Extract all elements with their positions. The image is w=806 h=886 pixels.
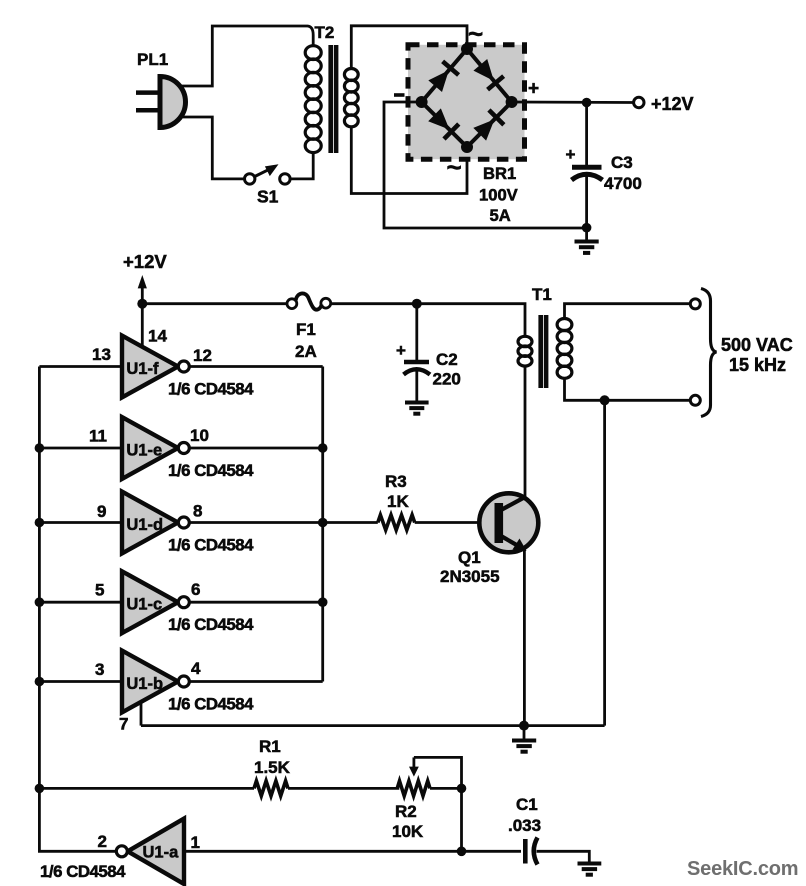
node BR1 bottom (461, 141, 473, 153)
svg-text:.033: .033 (508, 816, 541, 835)
label +12V supply arrow (123, 251, 167, 304)
svg-text:R3: R3 (385, 472, 407, 491)
svg-text:U1-d: U1-d (126, 516, 163, 534)
node bus left b (35, 677, 45, 687)
svg-text:F1: F1 (296, 320, 316, 339)
wire U1-d input (39, 521, 122, 524)
svg-text:5A: 5A (490, 206, 511, 225)
svg-text:~: ~ (447, 152, 462, 182)
U1-e pin labels (89, 426, 209, 446)
svg-text:3: 3 (95, 660, 104, 679)
svg-text:1/6 CD4584: 1/6 CD4584 (168, 615, 254, 634)
U1-d pin labels (97, 502, 202, 522)
svg-text:4700: 4700 (604, 174, 642, 193)
brace output (701, 289, 717, 417)
node bus left R1 row (35, 784, 45, 794)
node C2 junction (412, 299, 422, 309)
svg-text:S1: S1 (257, 187, 279, 207)
svg-text:1.5K: 1.5K (254, 758, 291, 777)
svg-text:1/6 CD4584: 1/6 CD4584 (40, 862, 126, 881)
svg-text:+: + (396, 341, 406, 360)
U1-a pin labels (98, 832, 200, 852)
transistor Q1 (440, 493, 538, 586)
svg-text:Q1: Q1 (458, 548, 481, 567)
svg-text:2A: 2A (295, 342, 317, 361)
node BR1 left (416, 96, 428, 108)
capacitor C2 (396, 304, 461, 403)
BR1 diamond wires (422, 49, 512, 147)
resistor R3 (378, 472, 415, 530)
inverter U1-c (122, 571, 189, 633)
wire input bus left vertical (39, 367, 115, 852)
svg-text:15 kHz: 15 kHz (729, 355, 786, 375)
svg-text:13: 13 (92, 345, 111, 364)
node bus right c (318, 597, 328, 607)
wire U1-b output (189, 680, 322, 683)
svg-text:U1-b: U1-b (126, 675, 163, 693)
wire plug bottom to S1 (183, 117, 245, 179)
svg-text:100V: 100V (479, 186, 518, 205)
U1-c pin labels (95, 580, 200, 600)
svg-text:1K: 1K (387, 492, 409, 511)
wire C1 to ground (537, 851, 590, 863)
svg-text:7: 7 (119, 715, 128, 734)
svg-text:4: 4 (191, 659, 201, 678)
svg-text:U1-f: U1-f (126, 360, 159, 378)
wire T2 secondary top to BR1 ~ top node (351, 26, 467, 69)
node BR1 top (461, 43, 473, 55)
wire BR1 minus to ground rail of C3 (384, 102, 587, 228)
wire U1-f output (189, 365, 322, 368)
svg-text:1/6 CD4584: 1/6 CD4584 (168, 380, 254, 399)
svg-text:500 VAC: 500 VAC (721, 335, 793, 355)
potentiometer R2 (392, 757, 462, 841)
capacitor C3 (566, 103, 642, 228)
inverter U1-a (116, 819, 184, 884)
svg-text:14: 14 (148, 327, 167, 346)
diode BR1 bottom-right (472, 110, 504, 142)
wire U1-e output (189, 447, 322, 450)
inverter U1-f (122, 336, 189, 398)
node bus left c (35, 597, 45, 607)
svg-text:R1: R1 (259, 737, 281, 756)
node bus left d (35, 518, 45, 528)
node bus right d (318, 518, 328, 528)
transformer T2 (305, 23, 358, 153)
svg-text:+12V: +12V (651, 94, 694, 114)
fuse F1 (287, 293, 331, 361)
node C3 top junction (582, 98, 592, 108)
diode BR1 top-left (427, 61, 458, 93)
node C1 row junction (457, 847, 467, 857)
PL1 prong upper (136, 90, 158, 95)
U1-f pin labels (92, 327, 212, 366)
wire T1 secondary top to terminal (565, 304, 691, 319)
svg-text:C1: C1 (516, 795, 538, 814)
wire pin7 to ground rail (140, 702, 143, 726)
svg-text:SeekIC.com: SeekIC.com (687, 858, 798, 880)
svg-text:C3: C3 (611, 153, 633, 172)
svg-text:1: 1 (191, 833, 200, 852)
U1-b pin labels (95, 659, 201, 734)
inverter U1-e (122, 417, 189, 479)
svg-text:BR1: BR1 (483, 164, 516, 183)
svg-text:U1-c: U1-c (126, 596, 162, 614)
PL1 prong lower (136, 108, 158, 113)
svg-text:T1: T1 (532, 285, 552, 304)
wire Q1 emitter to ground rail (523, 549, 526, 726)
wire BR1 plus to +12V terminal (512, 101, 634, 104)
svg-text:11: 11 (89, 427, 107, 446)
wire U1-c input (39, 601, 122, 604)
terminal +12V output (634, 97, 644, 107)
svg-text:U1-e: U1-e (126, 442, 162, 460)
diode BR1 top-right (472, 58, 503, 90)
BR1 value label (479, 164, 518, 225)
node bus left e (35, 443, 45, 453)
switch S1 (245, 164, 291, 206)
inverter U1-b (122, 651, 189, 713)
wire R1 to R2 (288, 787, 399, 790)
wire plug top to T2 primary top (182, 26, 313, 86)
ground below Q1 emitter rail (512, 726, 536, 752)
bridge rectifier BR1 outline box (408, 45, 525, 159)
node C3 bottom junction (582, 223, 592, 233)
ground below C2 (405, 403, 429, 414)
svg-text:2N3055: 2N3055 (440, 567, 500, 586)
svg-text:C2: C2 (436, 350, 458, 369)
svg-text:~: ~ (468, 19, 483, 49)
svg-text:+12V: +12V (123, 251, 167, 272)
svg-text:10K: 10K (392, 822, 424, 841)
wire pin14 power to U1-f (141, 304, 144, 348)
svg-text:9: 9 (97, 502, 106, 521)
svg-text:8: 8 (193, 502, 202, 521)
node R2 wiper junction (457, 784, 467, 794)
wire U1-d output (189, 521, 377, 524)
node T1 center-tap junction (600, 395, 610, 405)
terminal T1 output bottom (690, 395, 700, 405)
ground right of C1 (578, 864, 602, 875)
connector PL1 (AC plug) (137, 50, 186, 128)
svg-text:PL1: PL1 (137, 50, 168, 69)
wire R1 row from bus (39, 787, 254, 790)
svg-text:+: + (528, 79, 539, 100)
svg-text:1/6 CD4584: 1/6 CD4584 (168, 695, 254, 714)
wire U1-b input (39, 680, 122, 683)
terminal T1 output top (690, 299, 700, 309)
svg-text:U1-a: U1-a (143, 844, 180, 862)
wire output bus right vertical (321, 367, 324, 682)
resistor R1 (254, 737, 291, 796)
wire U1-f input (39, 365, 122, 368)
svg-text:6: 6 (191, 580, 200, 599)
wire U1-a input to C1 (184, 850, 521, 853)
BR1 minus label (394, 93, 405, 97)
node emitter ground junction (519, 721, 529, 731)
wire S1 to T2 primary bottom (291, 152, 314, 179)
svg-text:220: 220 (433, 370, 461, 389)
svg-text:5: 5 (95, 581, 104, 600)
svg-text:1/6 CD4584: 1/6 CD4584 (168, 461, 254, 480)
wire U1-c output (189, 601, 322, 604)
svg-text:+: + (566, 145, 576, 164)
transformer T1 (518, 285, 572, 388)
svg-text:10: 10 (190, 426, 209, 445)
svg-text:12: 12 (193, 346, 212, 365)
svg-text:T2: T2 (315, 23, 335, 42)
wire R2 right to junction (430, 787, 462, 790)
svg-text:1/6 CD4584: 1/6 CD4584 (168, 536, 254, 555)
wire T1 bottom junction down to ground rail (603, 400, 606, 725)
wire R3 to Q1 base (415, 521, 495, 524)
node +12V rail junction (137, 299, 147, 309)
inverter U1-d (122, 492, 189, 554)
capacitor C1 (508, 795, 541, 865)
wire +12V rail to fuse (142, 302, 287, 305)
wire Q1 collector to T1 primary (524, 365, 527, 498)
wire T1 secondary bottom to terminal (565, 378, 691, 400)
diode BR1 bottom-left (427, 107, 459, 139)
wire junction down to C1 row (460, 788, 463, 851)
ground rail wire (141, 724, 605, 727)
svg-text:R2: R2 (395, 802, 417, 821)
wire T2 secondary bottom to BR1 ~ bottom node (351, 127, 467, 194)
wire fuse to C2 junction to T1 primary (331, 304, 525, 336)
node BR1 right (506, 96, 518, 108)
wire U1-e input (39, 447, 122, 450)
label 500 VAC 15 kHz (721, 335, 793, 375)
svg-text:2: 2 (98, 832, 107, 851)
ground below C3 (575, 228, 599, 253)
node bus right e (318, 443, 328, 453)
